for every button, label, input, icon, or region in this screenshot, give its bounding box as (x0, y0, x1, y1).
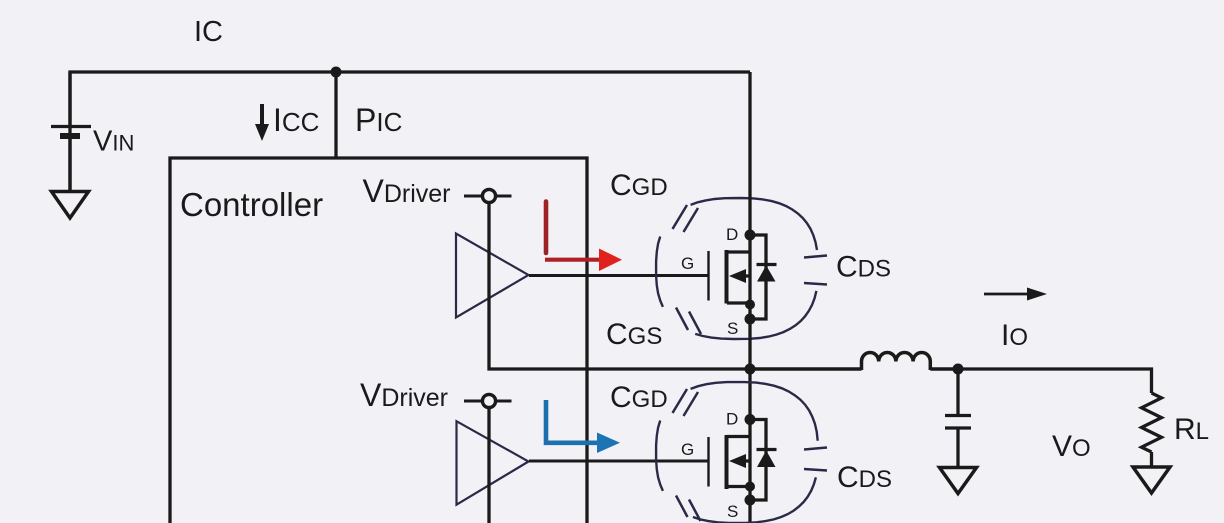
svg-text:VO: VO (1052, 430, 1091, 463)
transistor Q2 (709, 420, 777, 501)
svg-text:G: G (681, 440, 694, 459)
node output junction (953, 364, 964, 375)
svg-text:CDS: CDS (836, 251, 891, 284)
op-amp driver U2 (457, 421, 529, 505)
wire gate1 (529, 274, 709, 277)
capacitor CDS1 plates (804, 256, 827, 285)
current arrow blue (546, 400, 620, 453)
node Q1 drain (745, 230, 756, 241)
svg-text:CGD: CGD (610, 169, 668, 202)
wire driver1 return (489, 202, 750, 369)
svg-text:Controller: Controller (180, 186, 323, 223)
ground VIN (52, 192, 89, 219)
capacitor CGD2 plates (673, 389, 699, 416)
ground RL (1133, 467, 1170, 493)
svg-text:PIC: PIC (355, 102, 402, 138)
op-amp driver U1 (456, 234, 529, 318)
node A junction IC rail (331, 67, 342, 78)
svg-text:D: D (726, 410, 738, 429)
capacitor CGS2 plates (676, 496, 701, 522)
resistor RL (1142, 393, 1162, 452)
terminal VDriver1 (464, 189, 512, 202)
svg-text:VIN: VIN (93, 126, 134, 158)
svg-text:RL: RL (1174, 413, 1209, 446)
battery VIN (51, 72, 91, 191)
controller box (170, 158, 587, 523)
capacitor CGD1 plates (673, 205, 699, 232)
wire output to RL (958, 369, 1152, 393)
inductor L (750, 353, 958, 371)
node switch junction (745, 364, 756, 375)
node Q1 source (745, 314, 756, 325)
svg-text:CDS: CDS (837, 461, 892, 494)
svg-text:D: D (726, 225, 738, 244)
wire top IC rail (70, 72, 750, 191)
capacitor CDS2 plates (804, 448, 827, 471)
wire drain rail (748, 72, 751, 523)
svg-text:S: S (727, 319, 738, 338)
arrow Io (984, 288, 1047, 301)
transistor Q1 package outline (656, 198, 817, 339)
ground Cout (940, 468, 977, 494)
wire driver2 return (487, 407, 490, 523)
node Q2 source bar (745, 482, 755, 492)
wire gate2 (529, 460, 709, 463)
capacitor Cout (945, 369, 971, 468)
node Q2 source (745, 495, 756, 506)
svg-text:CGS: CGS (606, 318, 662, 351)
svg-text:ICC: ICC (273, 102, 319, 138)
current arrow red (545, 202, 622, 272)
capacitor CGS1 plates (676, 308, 701, 335)
svg-text:VDriver: VDriver (363, 173, 451, 209)
transistor Q1 (709, 235, 777, 319)
wire RL to ground (1150, 452, 1153, 467)
svg-text:IO: IO (1001, 319, 1028, 352)
svg-text:S: S (727, 502, 738, 521)
node Q2 drain (745, 414, 756, 425)
svg-text:IC: IC (194, 16, 223, 48)
current arrow ICC (255, 104, 269, 141)
wire junction to controller (334, 72, 337, 158)
svg-text:G: G (681, 254, 694, 273)
svg-text:CGD: CGD (610, 381, 668, 414)
node Q1 source bar (745, 300, 755, 310)
terminal VDriver2 (464, 394, 512, 407)
svg-text:VDriver: VDriver (360, 377, 448, 413)
transistor Q2 package outline (656, 382, 818, 523)
